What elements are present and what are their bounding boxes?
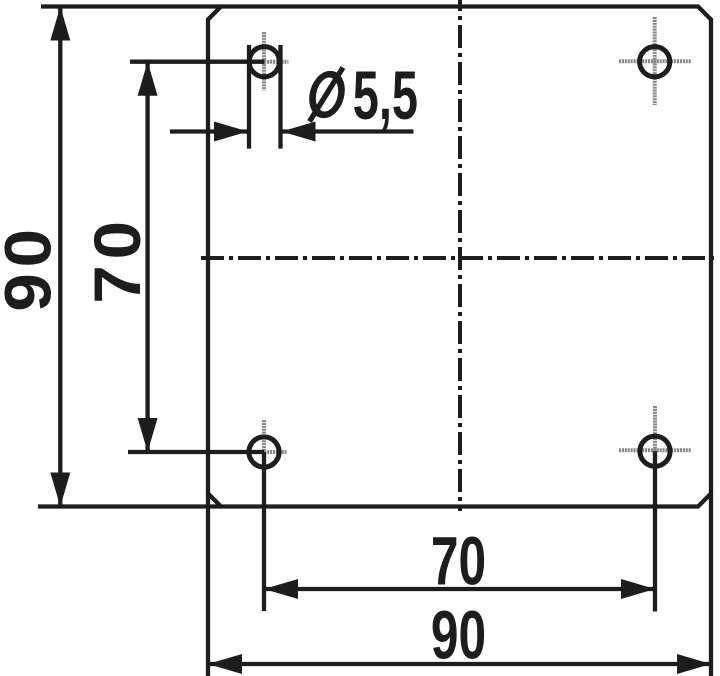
dimension diameter 5.5: line left segment [170, 129, 249, 133]
hole bottom-left [249, 437, 279, 467]
vertical center line [458, 0, 462, 511]
extension line bottom-right hole vertical [653, 451, 657, 611]
dimension diameter 5.5: arrow pointing right [214, 122, 248, 142]
extension line top-left hole [130, 60, 264, 64]
extension line bottom edge [38, 504, 221, 508]
extension line left edge below plate [206, 494, 210, 676]
hole bottom-right [640, 436, 670, 466]
dimension diameter 5.5: tangent extension right [278, 45, 282, 149]
svg-text:90: 90 [431, 597, 486, 674]
dimension 70 bottom: arrow left [264, 579, 298, 599]
dimension 90 left: arrow up [50, 7, 70, 41]
center mark top-right hole [619, 17, 692, 105]
center mark top-left hole [241, 32, 289, 91]
dimension diameter 5.5: line right segment [281, 129, 414, 133]
dimension diameter 5.5: label [310, 57, 419, 134]
svg-text:5,5: 5,5 [353, 57, 418, 134]
center mark bottom-left hole [241, 420, 288, 484]
hole top-left [249, 47, 279, 77]
extension line bottom-left hole [128, 450, 264, 454]
center mark bottom-right hole [619, 406, 692, 494]
dimension 90 left: line [58, 7, 62, 507]
dimension 70 bottom: line [264, 587, 655, 591]
dimension 90 bottom: line [208, 662, 711, 666]
dimension 90 left: arrow down [50, 473, 70, 507]
svg-text:70: 70 [431, 523, 486, 600]
dimension 70 left: arrow up [138, 62, 158, 96]
dimension 90 bottom: arrow left [208, 654, 242, 674]
svg-text:90: 90 [0, 223, 65, 312]
svg-text:70: 70 [81, 215, 154, 304]
extension line bottom-left hole vertical [262, 452, 266, 611]
dimension 70 bottom: arrow right [621, 579, 655, 599]
dimension 70 left: line [145, 62, 149, 452]
horizontal center line [201, 256, 717, 260]
dimension diameter 5.5: arrow pointing left [282, 122, 316, 142]
extension line right edge below plate [709, 494, 713, 676]
extension line top edge [41, 4, 221, 8]
hole top-right [640, 47, 670, 77]
dimension 70 left: arrow down [138, 418, 158, 452]
plate outline [208, 7, 711, 507]
dimension 90 bottom: arrow right [677, 654, 711, 674]
dimension diameter 5.5: tangent extension left [247, 45, 251, 149]
